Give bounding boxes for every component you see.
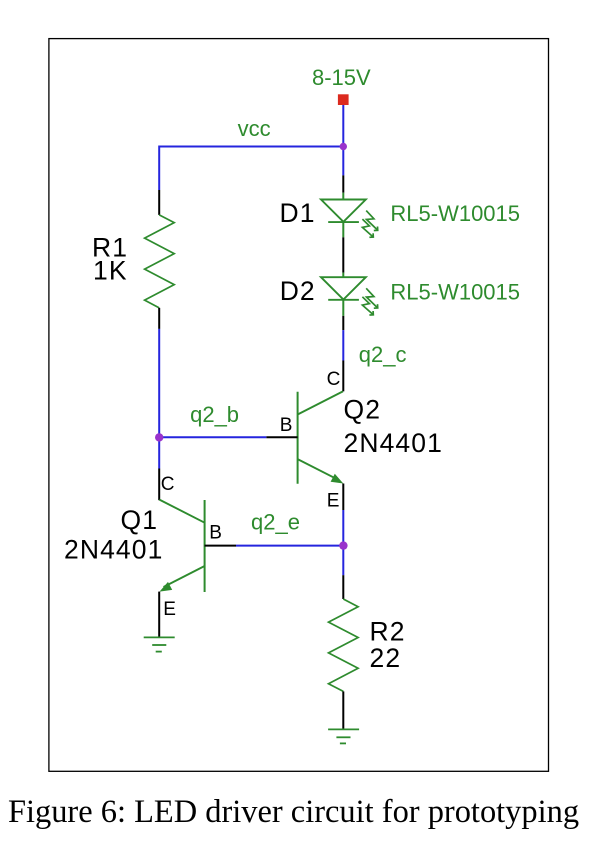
wire: Q2 emitter down — [342, 484, 344, 576]
LED D1 — [321, 193, 378, 238]
wire: D2 cathode to Q2 collector — [342, 316, 344, 392]
pin wire: Q1 collector — [158, 469, 160, 501]
wire: power drop to vcc junction — [342, 105, 344, 147]
wire: vcc down left — [158, 146, 160, 191]
svg-text:C: C — [327, 369, 341, 390]
svg-text:D2: D2 — [280, 276, 316, 306]
svg-text:1K: 1K — [93, 256, 128, 286]
power symbol (red square) — [338, 94, 349, 105]
pin wire: Q1 emitter to ground — [158, 592, 160, 638]
junction: vcc node — [340, 143, 347, 150]
resistor R2 — [329, 575, 359, 729]
ground (R2) — [328, 729, 359, 743]
pin wire: Q1 base — [205, 545, 236, 547]
svg-text:RL5-W10015: RL5-W10015 — [390, 279, 520, 304]
resistor R1 — [145, 190, 175, 329]
border frame — [49, 39, 549, 772]
svg-text:2N4401: 2N4401 — [64, 535, 163, 565]
svg-text:B: B — [209, 522, 222, 543]
pin wire: Q2 base — [266, 436, 297, 438]
svg-text:C: C — [161, 474, 175, 495]
svg-text:q2_b: q2_b — [190, 402, 239, 427]
junction: q2_e node — [339, 541, 347, 549]
junction: q2_b node — [155, 433, 163, 441]
svg-text:Q1: Q1 — [121, 505, 159, 535]
wire: vcc horizontal — [159, 146, 343, 148]
svg-text:q2_c: q2_c — [359, 342, 407, 367]
svg-text:E: E — [327, 490, 340, 511]
wire: D1 cathode to D2 anode — [342, 237, 344, 272]
svg-text:D1: D1 — [280, 198, 316, 228]
transistor Q1 — [159, 500, 204, 592]
transistor Q2 — [298, 391, 344, 483]
svg-text:Figure 6: LED driver circuit f: Figure 6: LED driver circuit for prototy… — [8, 794, 579, 830]
svg-text:E: E — [163, 599, 176, 620]
svg-text:22: 22 — [370, 643, 402, 673]
svg-text:Q2: Q2 — [344, 394, 382, 424]
wire: R1 to q2_b junction — [158, 329, 160, 469]
wire: D1 anode from vcc — [342, 147, 344, 193]
svg-text:RL5-W10015: RL5-W10015 — [390, 201, 520, 226]
wire: q2_e horizontal — [236, 545, 343, 547]
svg-text:vcc: vcc — [238, 116, 271, 141]
svg-text:q2_e: q2_e — [251, 509, 300, 534]
LED D2 — [321, 273, 378, 316]
svg-text:B: B — [280, 415, 293, 436]
svg-text:8-15V: 8-15V — [312, 65, 371, 90]
ground (Q1 emitter) — [144, 637, 175, 651]
svg-text:2N4401: 2N4401 — [344, 428, 443, 458]
wire: q2_b horizontal — [159, 436, 266, 438]
